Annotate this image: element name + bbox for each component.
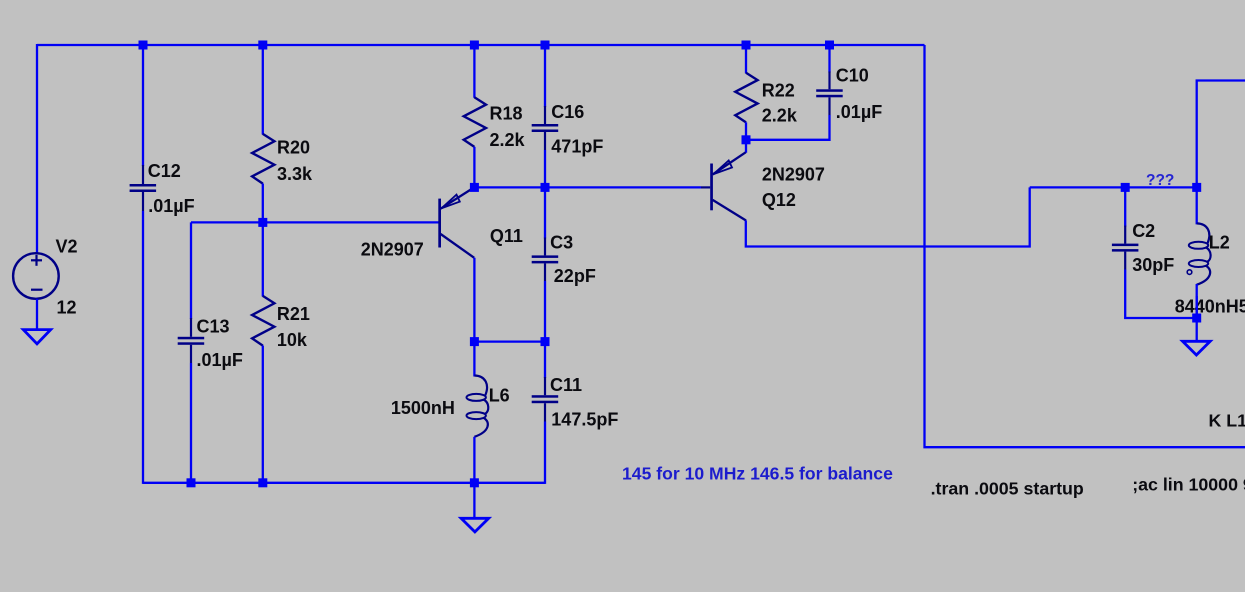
svg-text:22pF: 22pF — [554, 266, 596, 286]
label C13 — [197, 317, 230, 337]
wire C10 lower and across to emitter node — [746, 115, 830, 140]
value 3.3k — [277, 164, 313, 184]
wire C11 lower to bus corner — [544, 422, 546, 484]
ground under V2 — [23, 330, 50, 344]
wire C16 to node row — [544, 150, 546, 187]
wire V2 to ground — [36, 299, 38, 330]
wire top supply bus — [37, 44, 925, 46]
junction tank row at C11 — [541, 337, 550, 346]
wire C10 column upper — [828, 45, 830, 73]
wire R22 column upper — [745, 45, 747, 73]
wire C13 column upper — [190, 222, 192, 319]
transistor Q11 — [438, 188, 474, 258]
wire right feedback column — [925, 45, 1245, 447]
wire ground stub below L2 — [1196, 318, 1198, 342]
junction node row at R18 — [470, 183, 479, 192]
junction output row at L2 — [1192, 183, 1201, 192]
wire L6 upper stub — [473, 342, 475, 377]
junction emitter node Q12 — [742, 135, 751, 144]
inductor L2 — [1187, 223, 1210, 284]
svg-text:471pF: 471pF — [551, 137, 603, 157]
wire C2 lower and across — [1125, 270, 1197, 319]
value 10k — [277, 330, 308, 350]
svg-text:V2: V2 — [56, 237, 78, 257]
svg-text:L2: L2 — [1209, 232, 1230, 252]
junction top bus at C16 — [541, 41, 550, 50]
svg-text:2.2k: 2.2k — [490, 130, 526, 150]
svg-text:3.3k: 3.3k — [277, 164, 313, 184]
value 8440nH — [1175, 297, 1245, 317]
value .01µF — [148, 196, 194, 216]
label 2N2907 (Q12) — [762, 165, 825, 185]
label 2N2907 (Q11) — [361, 240, 424, 260]
wire R20 column upper — [262, 45, 264, 135]
svg-text:C11: C11 — [550, 375, 582, 395]
svg-text:147.5pF: 147.5pF — [551, 410, 618, 430]
junction top bus at C10 — [825, 41, 834, 50]
wire L2 lower stub — [1196, 284, 1198, 318]
value .01µF — [197, 350, 243, 370]
label R18 — [490, 103, 523, 123]
wire R22 to emitter node — [745, 122, 747, 140]
wire R21 column lower — [262, 346, 264, 484]
svg-text:1500nH: 1500nH — [391, 398, 455, 418]
wire Q12 collector run — [746, 187, 1030, 246]
svg-text:.tran .0005 startup: .tran .0005 startup — [931, 479, 1084, 499]
junction top bus at R20 — [258, 41, 267, 50]
wire Q11 collector column — [473, 258, 475, 342]
label Q11 — [490, 226, 523, 246]
transistor Q12 — [701, 152, 746, 220]
label C16 — [551, 102, 584, 122]
svg-text:C13: C13 — [197, 317, 230, 337]
resistor R22 — [735, 73, 757, 123]
resistor R21 — [252, 296, 274, 346]
wire C2 upper stub — [1124, 187, 1126, 226]
svg-text:8440nH5: 8440nH5 — [1175, 297, 1245, 317]
value 471pF — [551, 137, 603, 157]
wire left column to V2 — [36, 44, 38, 254]
label L2 — [1209, 232, 1230, 252]
svg-text:;ac lin 10000 9: ;ac lin 10000 9 — [1132, 475, 1245, 495]
wire R18 to collector node row — [473, 147, 475, 188]
label V2 — [56, 237, 78, 257]
value 30pF — [1132, 255, 1174, 275]
junction bottom bus at ground — [470, 478, 479, 487]
junction bottom bus at C13 — [187, 478, 196, 487]
svg-text:145 for 10 MHz 146.5 for balan: 145 for 10 MHz 146.5 for balance — [622, 464, 893, 484]
svg-text:12: 12 — [57, 298, 77, 318]
svg-text:R20: R20 — [277, 137, 310, 157]
voltage source V2 — [13, 253, 59, 299]
junction top bus at R18 — [470, 41, 479, 50]
wire C3 column upper — [544, 187, 546, 238]
wire tank node row — [474, 340, 545, 342]
wire L6 lower stub — [473, 437, 475, 484]
svg-text:30pF: 30pF — [1132, 255, 1174, 275]
capacitor C10 — [816, 72, 843, 116]
svg-text:???: ??? — [1146, 172, 1174, 189]
label C10 — [836, 66, 869, 86]
label C3 — [550, 233, 573, 253]
wire R20 to node row — [262, 184, 264, 223]
resistor R18 — [464, 97, 486, 147]
capacitor C12 — [130, 165, 157, 211]
value 12 — [57, 298, 77, 318]
svg-text:Q11: Q11 — [490, 226, 523, 246]
junction top bus at C12 — [139, 41, 148, 50]
comment 145 for 10 MHz — [622, 464, 893, 484]
wire C12 column lower — [142, 211, 144, 484]
label R20 — [277, 137, 310, 157]
wire output node row — [1030, 186, 1197, 188]
junction output row at C2 — [1121, 183, 1130, 192]
capacitor C3 — [532, 238, 559, 282]
svg-text:R22: R22 — [762, 81, 795, 101]
label R22 — [762, 81, 795, 101]
wire Q12 emitter stub — [745, 140, 747, 153]
svg-text:Q12: Q12 — [762, 190, 796, 210]
label C12 — [148, 161, 181, 181]
svg-text:.01µF: .01µF — [836, 102, 882, 122]
value 22pF — [554, 266, 596, 286]
value 1500nH — [391, 398, 455, 418]
svg-text:C3: C3 — [550, 233, 573, 253]
svg-text:K L1: K L1 — [1209, 411, 1245, 431]
value 147.5pF — [551, 410, 618, 430]
value 2.2k (R22) — [762, 106, 798, 126]
svg-text:10k: 10k — [277, 330, 308, 350]
junction node row at C16 — [541, 183, 550, 192]
value 2.2k — [490, 130, 526, 150]
label Q12 — [762, 190, 796, 210]
directive .tran — [931, 479, 1084, 499]
label C2 — [1132, 221, 1155, 241]
directive ;ac lin — [1132, 475, 1245, 495]
capacitor C11 — [532, 377, 559, 422]
wire C16 column upper — [544, 45, 546, 107]
ground under L2 — [1183, 341, 1211, 355]
capacitor C16 — [532, 106, 559, 150]
wire C12 column upper — [142, 45, 144, 166]
svg-text:.01µF: .01µF — [197, 350, 243, 370]
svg-text:2.2k: 2.2k — [762, 106, 798, 126]
svg-text:2N2907: 2N2907 — [762, 165, 825, 185]
wire top right branch — [1197, 81, 1245, 225]
svg-text:R18: R18 — [490, 103, 523, 123]
net label ??? — [1146, 172, 1174, 189]
wire oscillator node row — [474, 186, 701, 188]
wire C13 column lower — [190, 363, 192, 484]
resistor R20 — [252, 134, 274, 184]
svg-text:C12: C12 — [148, 161, 181, 181]
wire C11 upper stub — [544, 342, 546, 378]
svg-text:C2: C2 — [1132, 221, 1155, 241]
label L6 — [489, 386, 510, 406]
wire bottom return bus — [143, 482, 545, 484]
svg-text:C10: C10 — [836, 66, 869, 86]
wire C3 column lower — [544, 281, 546, 342]
junction bias row at R20/R21 — [258, 218, 267, 227]
junction L2 bottom node — [1192, 314, 1201, 323]
ground at bottom bus — [461, 518, 489, 532]
wire R18 column upper — [473, 45, 475, 98]
wire junction stub overlay at L2 — [1196, 296, 1198, 318]
junction bottom bus at R21 — [258, 478, 267, 487]
wire ground stub below bus — [473, 483, 475, 519]
junction tank row at L6 — [470, 337, 479, 346]
svg-text:R21: R21 — [277, 304, 310, 324]
capacitor C13 — [178, 318, 205, 363]
svg-text:C16: C16 — [551, 102, 584, 122]
wire R21 column upper — [262, 222, 264, 296]
capacitor C2 — [1112, 226, 1139, 270]
label C11 — [550, 375, 582, 395]
svg-text:2N2907: 2N2907 — [361, 240, 424, 260]
svg-text:.01µF: .01µF — [148, 196, 194, 216]
junction top bus at R22 — [742, 41, 751, 50]
directive K L1 — [1209, 411, 1245, 431]
inductor L6 — [467, 376, 489, 437]
value .01µF (C10) — [836, 102, 882, 122]
svg-text:L6: L6 — [489, 386, 510, 406]
wire bias node row — [191, 221, 439, 223]
label R21 — [277, 304, 310, 324]
